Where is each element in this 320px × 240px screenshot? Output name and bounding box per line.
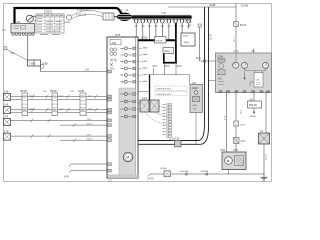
terminal block 15/1 <box>103 13 114 20</box>
wire: thick battery feed top-left <box>15 8 123 25</box>
table: fuse/function table <box>36 14 64 35</box>
svg-text:20/D8: 20/D8 <box>141 37 148 40</box>
svg-text:24-B: 24-B <box>87 135 92 137</box>
svg-text:25B: 25B <box>193 109 197 111</box>
splice G/50/8 <box>185 173 188 176</box>
instrument cluster 5/1 <box>216 49 272 93</box>
wire: thick feed B to CEM <box>124 39 177 41</box>
wire: cluster to fuel pump x224 <box>226 93 228 152</box>
CPL box <box>254 73 263 88</box>
svg-text:24B: 24B <box>70 91 74 93</box>
svg-text:3/76: 3/76 <box>115 33 121 37</box>
svg-text:B4/13: B4/13 <box>240 24 247 27</box>
ground rail 31/34 vertical pair <box>121 7 209 144</box>
svg-text:7 M: 7 M <box>161 11 166 15</box>
wire: dashed links to connector column <box>145 106 167 125</box>
wire: lens to block <box>114 16 118 18</box>
wire: sensor down to ground <box>263 144 265 174</box>
wire: cluster to dimmer x254 <box>253 93 255 101</box>
svg-text:A5M: A5M <box>193 104 198 107</box>
svg-text:4P-25: 4P-25 <box>87 139 94 141</box>
motor M in CEM <box>123 152 133 162</box>
svg-text:24/15: 24/15 <box>240 124 246 126</box>
svg-text:COM: COM <box>217 55 223 58</box>
wire: sensor feed x236 <box>235 4 237 54</box>
wire: column to connector box <box>170 139 175 141</box>
fuse holder 2 60B <box>28 60 49 66</box>
wire: ESM to ground rail <box>195 113 197 145</box>
svg-text:-P2/2: -P2/2 <box>164 66 170 68</box>
svg-text:11/1: 11/1 <box>108 181 113 183</box>
ground wire bottom <box>150 173 264 175</box>
gauge 3 <box>263 62 269 68</box>
svg-text:31/50A: 31/50A <box>160 167 167 170</box>
svg-text:24B: 24B <box>43 91 47 93</box>
page border frame <box>4 4 272 182</box>
svg-text:31/34: 31/34 <box>211 34 213 40</box>
svg-text:6-3/51-36: 6-3/51-36 <box>76 14 87 17</box>
ESM module <box>190 83 203 113</box>
sensor 7/8 (crossed box) <box>259 130 270 144</box>
switch S2 row2 <box>4 105 11 114</box>
connector 11D08 <box>155 37 167 44</box>
relay 14/2 pair <box>138 97 159 112</box>
svg-text:-P2/3: -P2/3 <box>176 66 182 68</box>
svg-text:4/24a: 4/24a <box>64 21 71 24</box>
svg-text:A/11: A/11 <box>110 67 115 70</box>
connector column 24/13 <box>163 103 172 139</box>
connector top of wire 199.5 <box>198 24 201 27</box>
switch S1 row1 <box>4 92 11 101</box>
svg-text:21-9: 21-9 <box>196 58 201 60</box>
CEM pin rows (forks) <box>121 47 132 118</box>
svg-text:2M/4B: 2M/4B <box>50 91 57 93</box>
switch S4 row4 <box>4 131 11 140</box>
svg-text:WASHER-MOT: WASHER-MOT <box>157 93 173 96</box>
svg-text:2/24B: 2/24B <box>209 4 216 7</box>
svg-text:SENS: SENS <box>250 116 256 118</box>
svg-text:2 60B: 2 60B <box>29 63 36 66</box>
wire: drop to connector 9/63A <box>189 24 191 26</box>
svg-text:WASHER-MOT: WASHER-MOT <box>157 88 173 91</box>
svg-text:24/13B: 24/13B <box>172 138 180 140</box>
CEM gray inner column <box>119 88 136 178</box>
CEM right stub wires <box>138 48 143 82</box>
dimmer 8/8 <box>248 99 262 108</box>
ignition switch box P4/1 <box>181 33 195 46</box>
svg-text:6R: 6R <box>11 51 14 55</box>
svg-text:ESM: ESM <box>192 87 197 90</box>
harness grommet (black lens) <box>117 10 133 22</box>
wire: drop into E2D08 <box>161 23 163 37</box>
internal wiring <box>235 53 237 62</box>
wire: fork drops thin <box>136 23 188 40</box>
splice slashes rows <box>31 95 98 142</box>
wire pair to CEM bottom-left <box>71 163 108 165</box>
label box above table <box>45 11 52 14</box>
wire row1 <box>11 96 108 98</box>
CEM right pin squares <box>133 47 136 118</box>
svg-text:14/2: 14/2 <box>142 97 147 100</box>
busbar 7M <box>132 11 192 19</box>
svg-text:-P2/1: -P2/1 <box>152 66 158 68</box>
wire: cluster to sensor x266 <box>265 93 267 133</box>
svg-text:1-1/2: 1-1/2 <box>233 51 239 53</box>
node: terminal 30 circle <box>66 15 71 20</box>
wire: short into cluster low <box>209 80 216 82</box>
gauge 2 <box>242 62 248 68</box>
svg-text:G/50/8A: G/50/8A <box>180 170 189 173</box>
wire: fuse to CEM <box>41 66 108 72</box>
washer module function labels (dashed) <box>155 86 187 96</box>
svg-text:6/32: 6/32 <box>221 150 226 152</box>
wire: arc upper <box>72 10 104 15</box>
junction box E/D4 <box>163 48 174 54</box>
connector strip 24/4B <box>78 91 86 116</box>
wire: arc lower <box>72 14 104 18</box>
wire: thick drop to relay 14/2 <box>149 75 151 101</box>
svg-text:1/3B: 1/3B <box>4 92 9 94</box>
CEM icons <box>110 48 117 66</box>
wire: 199.5 down to 21-9 <box>199 27 201 61</box>
wire: relay pin down <box>27 35 29 60</box>
pump symbol circle (crossed circle) <box>26 15 37 22</box>
svg-text:6-P20: 6-P20 <box>148 179 155 181</box>
wire row2 <box>11 109 108 111</box>
fuel pump 6/32 <box>221 150 247 169</box>
svg-text:1/3B: 1/3B <box>233 150 238 152</box>
relay pins <box>12 33 34 35</box>
switch S3 row3 <box>4 117 11 126</box>
svg-text:1/7B: 1/7B <box>4 117 9 119</box>
svg-text:A/D: A/D <box>218 77 222 80</box>
wire: thick E horizontal <box>163 62 177 64</box>
svg-text:6/50/8A: 6/50/8A <box>201 170 209 173</box>
svg-text:30D8: 30D8 <box>183 36 189 38</box>
stub 3/8 <box>253 49 255 54</box>
svg-text:E2D08: E2D08 <box>156 40 163 42</box>
svg-text:6-32: 6-32 <box>224 115 226 120</box>
wire row4 <box>11 135 108 137</box>
svg-text:M: M <box>126 156 129 160</box>
svg-text:A/D: A/D <box>112 41 117 45</box>
connector B4/13 <box>234 22 239 27</box>
svg-text:24-B: 24-B <box>87 119 92 121</box>
svg-text:1/3B: 1/3B <box>4 105 9 107</box>
svg-text:6-R: 6-R <box>85 69 89 72</box>
svg-text:31-50: 31-50 <box>266 154 268 160</box>
wire: drop to P4/1 <box>181 23 183 33</box>
gauge 1 <box>233 62 239 68</box>
svg-text:2/3: 2/3 <box>17 20 21 24</box>
connector 31/50A <box>164 171 171 177</box>
wire: pump to ground wire <box>228 170 230 175</box>
svg-text:2M/1B: 2M/1B <box>20 91 27 93</box>
svg-text:4R-25: 4R-25 <box>87 124 94 126</box>
svg-text:24/4B: 24/4B <box>78 91 84 93</box>
connector 24/13B on rails <box>175 140 182 147</box>
fork pin labels <box>135 25 191 28</box>
wire: 21-9 into cluster <box>200 60 216 62</box>
connector strip 2M/4B <box>50 91 58 116</box>
ground G31 <box>261 174 268 180</box>
svg-text:2 60B: 2 60B <box>42 63 49 66</box>
wire row3 <box>11 119 108 121</box>
wire: cluster sensor x236 <box>235 93 237 138</box>
internal arrows <box>244 72 246 80</box>
svg-text:4/56: 4/56 <box>192 83 197 85</box>
cluster bottom pins <box>219 91 270 93</box>
connector 24/15 <box>234 121 239 126</box>
svg-text:11/1: 11/1 <box>2 30 7 32</box>
wire: thick drop A <box>175 23 177 63</box>
connector strip 2M/1B <box>20 91 28 116</box>
wire: drops from E <box>154 64 177 75</box>
CEM central module 3/76 <box>107 33 138 178</box>
svg-text:31/34B: 31/34B <box>241 5 249 8</box>
bus contacts (fork row) <box>134 19 190 23</box>
node 6R at left border <box>4 47 7 50</box>
svg-text:E/D4: E/D4 <box>165 51 171 53</box>
wire: diagonal from border to fuse box <box>7 50 28 61</box>
svg-text:4/10: 4/10 <box>241 141 246 143</box>
svg-text:31-2: 31-2 <box>234 37 236 42</box>
connector 4/10 on x236 <box>234 138 240 144</box>
svg-text:DIM DC: DIM DC <box>249 105 258 107</box>
svg-text:1/7B: 1/7B <box>4 131 9 133</box>
svg-text:6-P8: 6-P8 <box>64 177 70 179</box>
connector at wire start <box>40 65 44 69</box>
svg-text:6-30/51-36: 6-30/51-36 <box>77 9 89 12</box>
CEM left pin squares <box>107 70 111 172</box>
wire: thick from E/D4 down <box>163 54 165 64</box>
wire: horizontal W <box>150 74 190 76</box>
svg-text:31-1: 31-1 <box>241 109 243 114</box>
row wire labels <box>29 91 93 111</box>
wire: CEM to washer labels <box>138 91 150 93</box>
splice 6/50/8 <box>206 173 209 176</box>
wire: top-right horizontal feed <box>168 6 236 8</box>
svg-text:-P4/1: -P4/1 <box>184 42 190 45</box>
relay 2/3 (top-left block) <box>11 20 35 33</box>
